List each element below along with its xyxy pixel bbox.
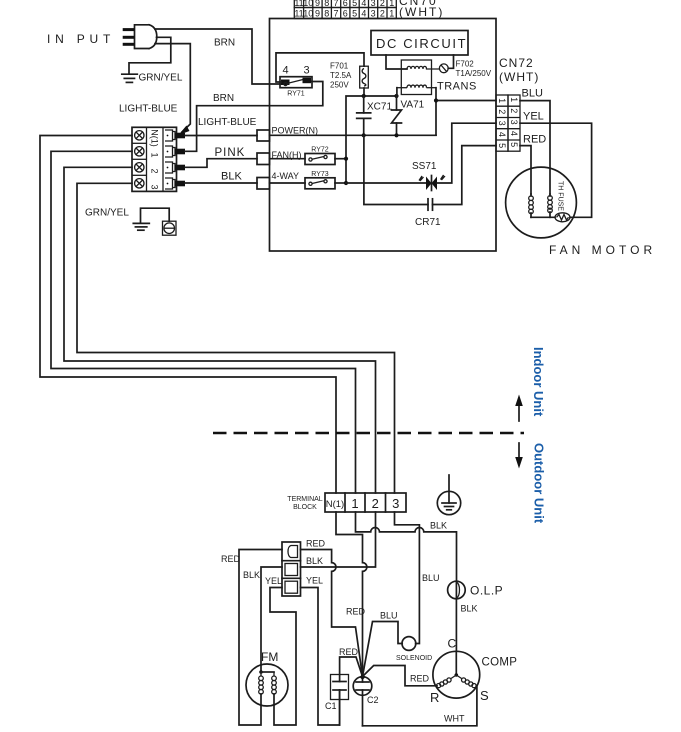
svg-text:F701: F701	[330, 62, 349, 71]
svg-text:10: 10	[303, 8, 313, 18]
svg-text:2: 2	[497, 109, 507, 114]
svg-text:T1A/250V: T1A/250V	[456, 69, 492, 78]
protector O.L.P	[448, 581, 504, 599]
svg-text:CR71: CR71	[415, 217, 441, 228]
svg-text:2: 2	[509, 108, 519, 113]
svg-text:BLK: BLK	[221, 171, 242, 183]
terminal block TB2 (outdoor)	[287, 493, 406, 512]
svg-text:S: S	[480, 688, 489, 703]
svg-text:3: 3	[150, 184, 160, 189]
svg-text:10: 10	[303, 0, 313, 8]
svg-text:GRN/YEL: GRN/YEL	[139, 73, 183, 84]
capacitor C2	[353, 675, 378, 726]
svg-text:LIGHT-BLUE: LIGHT-BLUE	[198, 117, 257, 128]
svg-text:C1: C1	[325, 701, 337, 711]
svg-text:Outdoor Unit: Outdoor Unit	[532, 443, 547, 524]
svg-text:4: 4	[361, 0, 366, 8]
svg-text:FM: FM	[261, 650, 278, 664]
separator dashed line indoor/outdoor	[213, 432, 524, 435]
svg-text:RY73: RY73	[311, 171, 328, 178]
svg-text:COMP: COMP	[482, 657, 518, 669]
wire BRN terminal row2 up into box to RY71 pin3	[185, 82, 323, 152]
wire terminal1 to O.L.P (BLK) with hops	[356, 512, 457, 581]
terminal block TB1 (indoor)	[132, 127, 185, 191]
screw terminal E1	[163, 221, 177, 235]
svg-text:5: 5	[497, 143, 507, 148]
indoor control board box	[270, 19, 497, 252]
svg-text:4: 4	[509, 131, 519, 136]
wire RED C2 to compressor R	[363, 666, 438, 686]
svg-text:BLOCK: BLOCK	[293, 504, 317, 511]
svg-text:5: 5	[352, 0, 357, 8]
wire BLU CN72 pin1 to fan motor	[520, 101, 550, 194]
svg-text:SS71: SS71	[412, 161, 437, 172]
svg-text:BLK: BLK	[461, 604, 478, 614]
wire 4-way rail to SS71	[346, 182, 426, 184]
relay RY72	[270, 147, 349, 165]
wire YEL connector bottom-left to FM	[270, 588, 296, 726]
svg-text:3: 3	[497, 121, 507, 126]
svg-text:3: 3	[371, 0, 376, 8]
wire PINK terminal row3 to FAN(H)	[185, 159, 257, 168]
svg-text:4-WAY: 4-WAY	[272, 171, 300, 181]
svg-text:TERMINAL: TERMINAL	[287, 496, 323, 503]
svg-text:7: 7	[333, 0, 338, 8]
transformer TRANS	[397, 60, 477, 95]
wire terminal3 to solenoid (BLU)	[395, 512, 420, 644]
svg-text:2: 2	[380, 0, 385, 8]
svg-text:YEL: YEL	[523, 111, 544, 123]
wire BLK connector mid-left to FM common	[261, 567, 282, 672]
svg-text:3: 3	[509, 120, 519, 125]
wire BLK terminal row4 to 4-WAY	[185, 182, 257, 184]
wire SS71 to CN72 pin3	[437, 123, 496, 183]
svg-text:CN72: CN72	[499, 56, 534, 70]
connector stack CN-OD (3 pole)	[282, 542, 301, 596]
wire terminal2 down to connector (BLK)	[301, 512, 376, 567]
svg-text:3: 3	[392, 496, 399, 511]
svg-text:1: 1	[389, 8, 394, 18]
relay RY71	[280, 65, 312, 98]
svg-text:8: 8	[324, 0, 329, 8]
wire YEL CN72 pin3 to fan motor fuse	[520, 123, 592, 217]
svg-text:4: 4	[497, 132, 507, 137]
fuse F701	[330, 62, 368, 90]
svg-text:RY72: RY72	[311, 147, 328, 154]
wire BRN from plug to RY71 pin4	[155, 29, 281, 84]
node power rail (fuse output)	[346, 96, 397, 183]
svg-text:T2.5A: T2.5A	[330, 71, 352, 80]
svg-text:VA71: VA71	[401, 100, 425, 111]
svg-text:F702: F702	[456, 60, 475, 69]
fuse F702	[439, 60, 491, 79]
varistor VA71	[392, 96, 425, 135]
svg-text:WHT: WHT	[444, 714, 465, 724]
triac SS71	[412, 161, 445, 191]
svg-text:1: 1	[497, 98, 507, 103]
capacitor XC71	[357, 96, 393, 135]
wire WHT compressor S to C2	[363, 686, 477, 726]
svg-text:LIGHT-BLUE: LIGHT-BLUE	[119, 104, 178, 115]
svg-text:BLK: BLK	[243, 570, 260, 580]
svg-text:N(1): N(1)	[150, 129, 160, 147]
ground G1	[122, 74, 138, 82]
svg-text:1: 1	[351, 496, 358, 511]
svg-text:BLU: BLU	[422, 573, 440, 583]
svg-text:Indoor Unit: Indoor Unit	[531, 347, 546, 417]
svg-text:4: 4	[361, 8, 366, 18]
svg-text:C2: C2	[367, 695, 379, 705]
svg-text:BRN: BRN	[214, 38, 235, 49]
wire RED connector top-right to C2 with hop	[301, 550, 363, 677]
svg-text:XC71: XC71	[367, 102, 392, 113]
svg-text:1: 1	[509, 97, 519, 102]
wire O.L.P to compressor C	[455, 599, 457, 652]
motor FM (outdoor fan)	[246, 650, 288, 706]
connector CN70 top strip	[294, 0, 444, 19]
svg-text:3: 3	[371, 8, 376, 18]
svg-text:BLK: BLK	[430, 521, 447, 531]
svg-text:PINK: PINK	[215, 147, 246, 159]
svg-text:RED: RED	[410, 674, 430, 684]
wire RED connector top-left to FM	[239, 550, 282, 726]
connector 4-WAY	[257, 171, 299, 189]
svg-text:BLU: BLU	[522, 88, 543, 100]
svg-text:6: 6	[343, 8, 348, 18]
svg-text:TH FUSE: TH FUSE	[557, 181, 564, 211]
svg-text:250V: 250V	[330, 81, 349, 90]
svg-text:1: 1	[389, 0, 394, 8]
svg-text:RY71: RY71	[287, 91, 304, 98]
svg-text:O.L.P: O.L.P	[470, 584, 503, 598]
wire N(1) to capacitor C2 (RED) with hop	[336, 512, 367, 677]
svg-text:RED: RED	[221, 554, 241, 564]
wire YEL connector bottom-right to C1 bottom	[301, 588, 340, 726]
svg-text:GRN/YEL: GRN/YEL	[85, 208, 129, 219]
wire RED CN72 pin5 to fan motor	[520, 146, 531, 194]
capacitor CR71	[364, 135, 496, 228]
wire DC box to TRANS primary	[386, 55, 407, 69]
svg-text:8: 8	[324, 8, 329, 18]
wire BLU C2 to solenoid	[363, 622, 403, 677]
svg-text:TRANS: TRANS	[437, 81, 477, 93]
box DC CIRCUIT	[371, 31, 468, 56]
svg-text:YEL: YEL	[306, 576, 323, 586]
wire POWER(N) line	[270, 134, 437, 136]
svg-text:(WHT): (WHT)	[399, 5, 444, 19]
wire bundle indoor terminals to outdoor (left side)	[40, 136, 336, 494]
ground G3 (outdoor earth)	[437, 475, 460, 515]
svg-text:1: 1	[150, 152, 160, 157]
ground G2	[133, 223, 149, 230]
svg-text:C: C	[448, 637, 457, 651]
svg-text:SOLENOID: SOLENOID	[396, 655, 432, 662]
svg-text:5: 5	[352, 8, 357, 18]
svg-text:2: 2	[372, 496, 379, 511]
wire GRN/YEL to earth and screw terminal	[141, 208, 170, 222]
svg-text:4: 4	[282, 65, 288, 77]
wire TRANS secondary right down to POWER line and CN72 pin1	[436, 88, 496, 136]
connector FAN(H)	[257, 150, 302, 165]
motor FAN MOTOR	[506, 167, 577, 238]
wire LIGHT-BLUE plug to terminal N(1) with arrow	[155, 44, 190, 135]
svg-text:9: 9	[315, 8, 320, 18]
arrow up (indoor)	[515, 395, 523, 422]
capacitor C1	[325, 657, 363, 725]
plug P1 (power input)	[123, 25, 157, 49]
compressor COMP	[430, 637, 517, 706]
wire F701 bottom to power rail	[363, 88, 365, 96]
connector POWER(N)	[257, 126, 318, 142]
arrow down (outdoor)	[515, 443, 523, 469]
svg-text:RED: RED	[346, 607, 366, 617]
svg-text:RED: RED	[306, 539, 326, 549]
svg-text:9: 9	[315, 0, 320, 8]
svg-text:FAN MOTOR: FAN MOTOR	[549, 243, 656, 257]
svg-text:YEL: YEL	[265, 576, 282, 586]
svg-text:BRN: BRN	[213, 93, 234, 104]
svg-text:BLK: BLK	[306, 556, 323, 566]
wire TRANS secondary left to rail node	[396, 88, 398, 96]
svg-text:POWER(N): POWER(N)	[272, 126, 319, 136]
svg-text:R: R	[430, 690, 439, 705]
svg-text:2: 2	[150, 168, 160, 173]
svg-text:5: 5	[509, 142, 519, 147]
svg-text:DC CIRCUIT: DC CIRCUIT	[376, 36, 467, 51]
svg-text:RED: RED	[523, 134, 546, 146]
svg-text:6: 6	[343, 0, 348, 8]
solenoid coil SOLENOID	[396, 637, 432, 662]
connector CN72	[496, 56, 539, 151]
wire RY71 pin4 to fuse F701 top	[276, 53, 364, 82]
svg-text:3: 3	[303, 65, 309, 77]
wire terminal row1 to POWER(N)	[185, 135, 257, 137]
wire GRN/YEL plug to chassis ground	[129, 37, 171, 74]
svg-text:(WHT): (WHT)	[499, 70, 539, 84]
svg-text:RED: RED	[339, 647, 359, 657]
svg-text:IN PUT: IN PUT	[47, 32, 115, 46]
relay RY73	[270, 171, 349, 189]
svg-text:7: 7	[333, 8, 338, 18]
svg-text:N(1): N(1)	[326, 499, 344, 510]
wire DC box to F702	[448, 55, 453, 68]
svg-text:2: 2	[380, 8, 385, 18]
svg-text:BLU: BLU	[380, 611, 398, 621]
